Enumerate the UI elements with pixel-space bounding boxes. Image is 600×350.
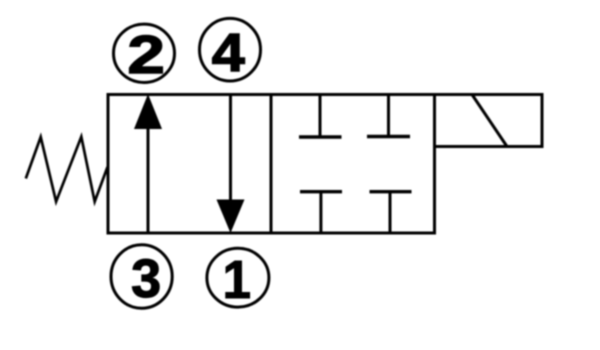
blocked port T (top right of right chamber) [367,95,410,137]
blocked port T (top left of right chamber) [299,95,342,138]
port circle 4 [200,18,261,81]
valve body outline [108,95,435,234]
svg-text:2: 2 [127,25,165,85]
solenoid diagonal [472,95,507,147]
wire: up-flow line (port 3 to port 2) [147,126,150,233]
wire: down-flow line (port 4 to port 1) [229,95,232,203]
svg-text:4: 4 [212,23,245,83]
blocked port T (bottom right of right chamber) [370,192,412,233]
wire: position divider [270,95,273,234]
port circle 3 [111,245,172,308]
solenoid coil box [435,95,543,147]
port circle 1 [207,248,269,307]
svg-text:1: 1 [222,250,251,310]
spring (return spring, left) [26,137,108,202]
blocked port T (bottom left of right chamber) [300,192,342,233]
arrowhead down (port 1) [217,200,245,234]
arrowhead up (port 2) [134,94,162,129]
port circle 2 [114,24,175,82]
svg-text:3: 3 [131,249,161,309]
